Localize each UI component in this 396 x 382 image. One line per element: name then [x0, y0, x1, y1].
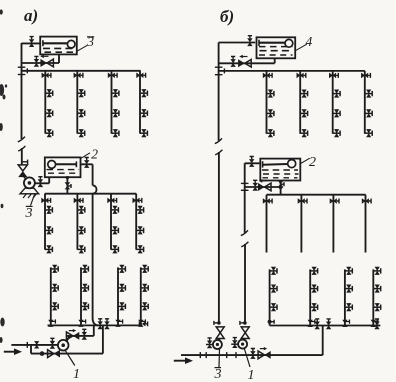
wire: return/suction line b	[181, 354, 323, 356]
gate valve above pump 1b	[241, 327, 249, 333]
valve on outlet line b	[230, 57, 235, 67]
riser b-low-2 with taps and foot valve	[308, 267, 318, 327]
stub valve above pump 3	[22, 161, 28, 163]
wire: pipe b continues to pump 3b	[218, 152, 220, 323]
riser a-low-3 with taps and foot valve	[115, 265, 125, 327]
valve on tank 2 inlet	[84, 158, 89, 168]
valve on suction	[34, 341, 39, 348]
valve before pump 1	[50, 338, 55, 348]
wire: pump 1 discharge diagonal	[67, 336, 70, 341]
wire: pump 3 discharge to tank 2	[35, 182, 49, 184]
svg-text:2: 2	[309, 155, 316, 170]
svg-text:4: 4	[306, 34, 313, 49]
wire: bypass line a	[31, 353, 103, 355]
wire: tank 2 inlet stub right	[81, 163, 93, 165]
wire: pump 1b pipe continues	[244, 244, 246, 323]
wire: curve into bottom main	[93, 318, 99, 325]
valve on tank 4 inlet	[247, 36, 252, 46]
bypass check valve a	[48, 350, 54, 358]
riser b-mid-2 with valve	[298, 195, 307, 253]
riser a-mid-3 with valve and taps	[107, 194, 118, 254]
svg-text:1: 1	[248, 368, 255, 382]
label 3 b with leader	[218, 349, 221, 367]
end tap bottom main b	[373, 325, 380, 327]
junction dot	[278, 185, 282, 189]
wire: stub to tank 4	[219, 42, 256, 44]
suction stub pump 1b	[231, 343, 238, 345]
inlet arrow b	[174, 360, 187, 362]
check valve tank 2b	[258, 183, 265, 191]
union ticks at main junction b	[215, 66, 223, 68]
label 2 b with leader	[301, 158, 310, 163]
junction dot bypass	[40, 351, 45, 356]
wire: stub to tank 3	[22, 42, 42, 44]
label 1 b with leader	[244, 349, 250, 367]
riser a-low-1 with taps and foot valve	[48, 265, 58, 327]
riser b-mid-1 with valve	[263, 195, 272, 253]
pipe break symbol a	[18, 137, 26, 151]
tank 3	[40, 37, 77, 55]
wire: left supply pipe b	[218, 42, 220, 140]
wire: check line to tank 2b	[245, 186, 281, 188]
wire: tank 4 outlet line	[219, 62, 275, 64]
valve on tank 2 drop	[65, 182, 71, 189]
pump 3 hatched mount	[20, 188, 39, 194]
union ticks on pump 1b pipe	[241, 182, 249, 184]
valve after check	[82, 329, 87, 339]
tank 2 a	[45, 157, 81, 177]
riser b-top-4 with valve and taps	[361, 71, 372, 137]
union tick	[26, 342, 28, 348]
riser b-mid-4 with valve	[362, 195, 371, 253]
stub valve above pump 1b	[240, 322, 245, 324]
riser a-mid-2 with valve and taps	[74, 194, 85, 254]
wire: return drop b	[322, 326, 324, 356]
riser a-mid-1 with valve and taps	[41, 194, 52, 254]
wire: pump 1b riser pipe down	[244, 163, 246, 233]
riser b-top-3 with valve and taps	[329, 71, 340, 137]
check valve suction b	[258, 351, 264, 359]
svg-text:3: 3	[25, 206, 33, 221]
label 3 pump with leader	[31, 195, 35, 206]
valve on discharge	[38, 177, 43, 187]
flow arrow right b	[260, 348, 264, 350]
flow arrow left	[44, 55, 49, 57]
stub valve above pump 3b	[214, 322, 219, 324]
pump 3 b	[219, 339, 221, 341]
riser b-top-1 with valve and taps	[263, 71, 274, 137]
union ticks suction b	[199, 352, 201, 358]
svg-text:2: 2	[91, 147, 98, 162]
label 2 a with leader	[81, 153, 90, 159]
riser b-top-2 with valve and taps	[297, 71, 308, 137]
riser b-mid-3 with valve	[330, 195, 339, 253]
valve on check line	[253, 180, 258, 190]
svg-text:3: 3	[214, 367, 222, 382]
valve before check b	[250, 349, 255, 359]
riser b-low-4 with taps and foot valve	[371, 267, 381, 327]
wire: top distribution main b	[219, 70, 365, 72]
wire: hot line continues down	[92, 194, 94, 318]
label 4 with leader	[295, 44, 307, 51]
wire: tank 3 outlet line	[22, 62, 60, 64]
wire: pipe a continues to pump 3	[21, 148, 23, 166]
wire: middle distribution main a	[45, 193, 137, 195]
pipe break symbol on pump 1b pipe	[241, 230, 249, 246]
flow arrow left tank2b	[262, 180, 267, 182]
wire: tank 2 drop to middle main	[66, 177, 68, 194]
valve on tank 2b inlet	[249, 157, 254, 167]
check valve under tank 3	[40, 59, 47, 67]
svg-text:а): а)	[24, 6, 38, 25]
wire: to main	[80, 335, 94, 337]
riser b-low-1 with taps and foot valve	[268, 267, 277, 326]
riser a-mid-4 with valve and taps	[133, 194, 144, 254]
pump 1 b	[244, 339, 246, 341]
scan speck artifacts left edge	[0, 9, 7, 343]
crossing loop over middle main	[93, 185, 97, 193]
wire: rise into tank 2 bottom	[48, 177, 50, 183]
wire: drop to bypass a	[102, 325, 104, 353]
riser a-top-3 with valve and taps	[108, 71, 119, 137]
pump 1 a	[58, 340, 69, 351]
wire: top distribution main a	[22, 70, 141, 72]
pipe break symbol b	[215, 138, 223, 154]
union ticks at main junction a	[18, 66, 26, 68]
taps on bottom main b	[315, 319, 320, 329]
gate valve above pump 3b	[216, 327, 224, 333]
inlet arrow a	[4, 351, 16, 353]
taps on bottom main a	[98, 319, 103, 329]
flow arrow right	[69, 330, 73, 332]
svg-text:1: 1	[73, 367, 80, 382]
riser b-low-3 with taps and foot valve	[342, 267, 352, 327]
tank 4	[257, 37, 296, 58]
wire: branch to bypass	[30, 345, 32, 354]
valve on outlet line	[34, 56, 39, 66]
end valve bottom main a	[139, 321, 148, 326]
wire: tank 2b outlet drop to middle main	[280, 181, 282, 195]
label 1 a with leader	[66, 351, 75, 366]
svg-text:б): б)	[220, 7, 234, 26]
riser a-top-4 with valve and taps	[136, 71, 147, 137]
flow arrow left b	[243, 56, 248, 58]
check valve under tank 4	[238, 59, 245, 67]
wire: middle distribution main b	[267, 194, 366, 196]
wire: bottom main b	[270, 325, 374, 327]
wire: bottom main a	[48, 324, 143, 326]
wire: tank 2b inlet stub	[245, 162, 261, 164]
wire: tank 4 outlet drop	[274, 58, 276, 63]
riser a-low-4 with taps and foot valve	[138, 265, 148, 327]
suction stub pump 3b	[206, 344, 213, 346]
valve on tank 2b drop	[278, 181, 283, 188]
label 3 top with leader	[77, 45, 88, 51]
wire: suction line a	[11, 344, 57, 346]
wire: left supply pipe a	[21, 43, 23, 139]
riser a-top-1 with valve and taps	[42, 71, 53, 137]
wire: hot water line down	[92, 164, 94, 185]
riser a-low-2 with taps and foot valve	[78, 265, 88, 327]
check valve after pump 1	[66, 335, 80, 337]
wire: tank 3 outlet drop	[58, 54, 60, 63]
valve on tank 3 inlet	[29, 37, 34, 47]
pump 3 (circulation)	[24, 177, 27, 180]
gate valve above pump 3	[18, 165, 27, 171]
tank 2 b	[260, 159, 300, 181]
riser a-top-2 with valve and taps	[74, 71, 85, 137]
